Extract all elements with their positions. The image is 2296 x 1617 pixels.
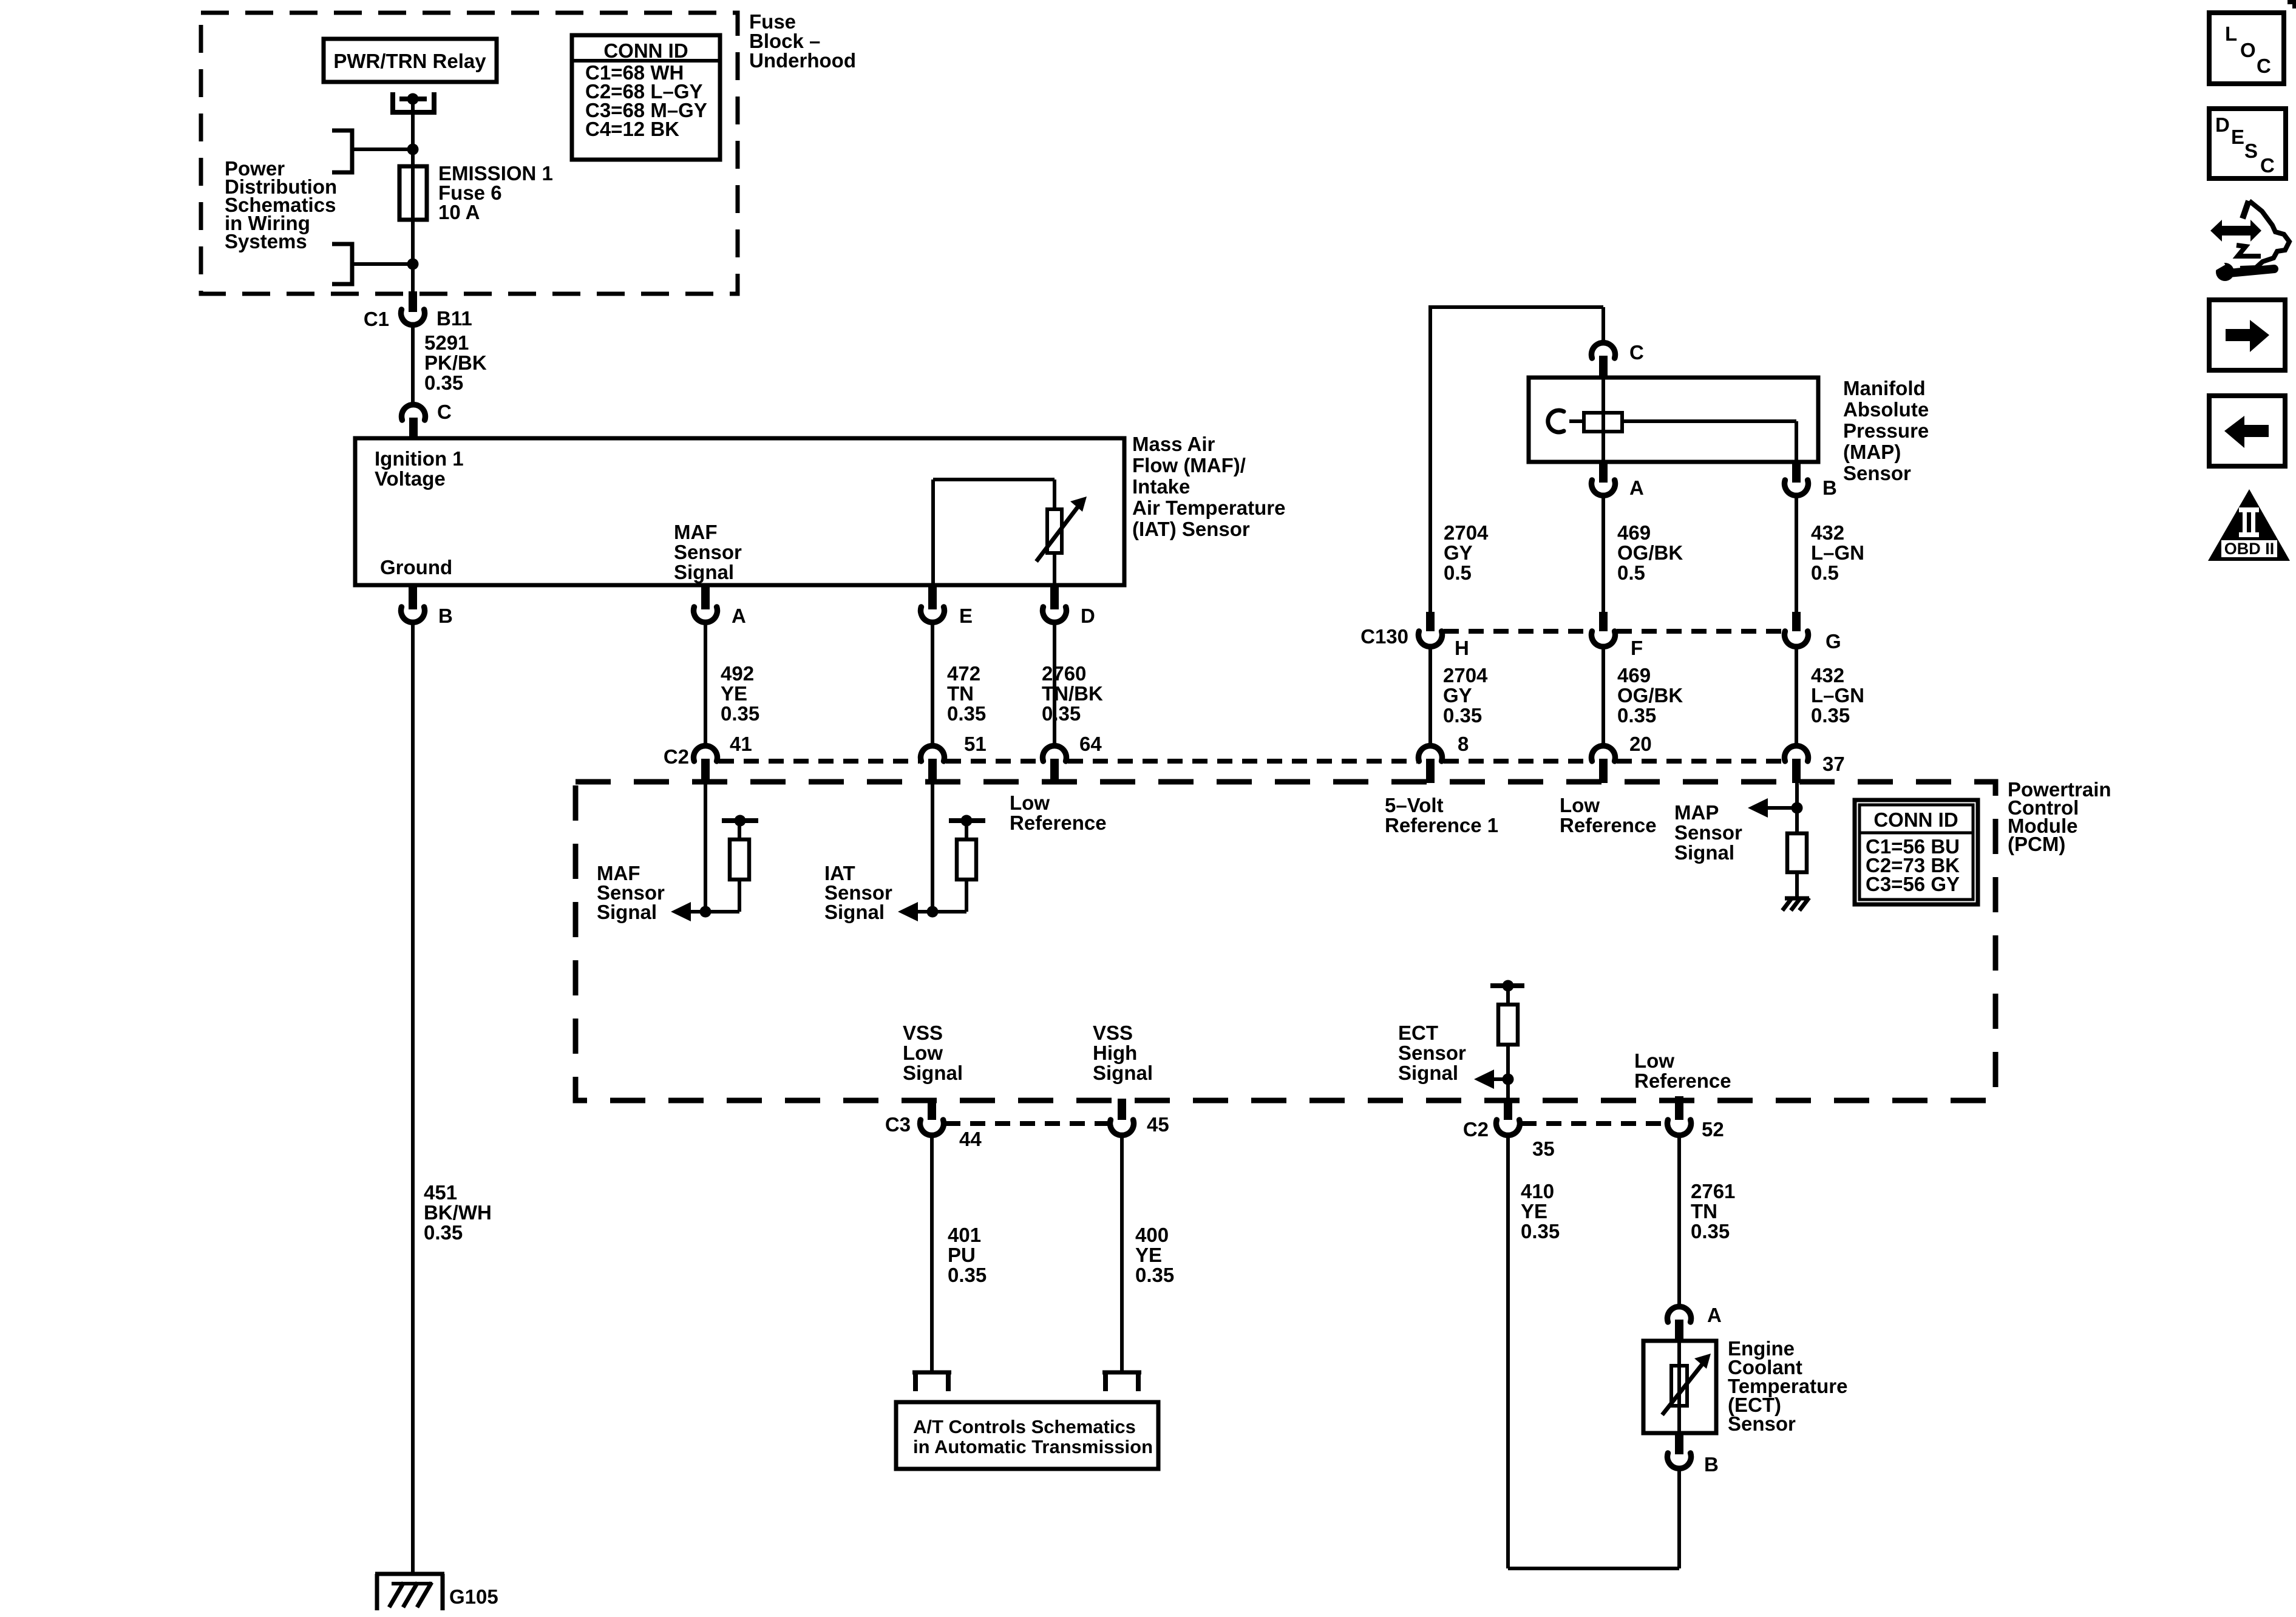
svg-text:TN: TN	[1691, 1200, 1717, 1222]
svg-text:Mass Air: Mass Air	[1132, 433, 1215, 455]
svg-text:C: C	[2260, 154, 2275, 177]
svg-text:20: 20	[1629, 733, 1652, 755]
svg-text:PK/BK: PK/BK	[424, 351, 487, 374]
wire 5291	[411, 324, 415, 405]
svg-text:A/T Controls Schematics: A/T Controls Schematics	[913, 1416, 1136, 1437]
label 432 L-GN 0.5	[1811, 521, 1864, 584]
svg-text:45: 45	[1147, 1113, 1169, 1136]
icon LOC box	[2209, 13, 2284, 84]
svg-text:D: D	[1081, 605, 1095, 627]
svg-text:492: 492	[721, 662, 754, 685]
PCM dashed box	[576, 782, 1995, 1100]
svg-text:C: C	[437, 401, 452, 423]
svg-text:Voltage: Voltage	[375, 467, 446, 490]
icon DESC box	[2209, 109, 2286, 178]
svg-text:(IAT) Sensor: (IAT) Sensor	[1132, 518, 1250, 540]
fuse F6 EMISSION 1 10A	[399, 166, 427, 220]
svg-text:Signal: Signal	[1398, 1062, 1458, 1084]
label 451 BK/WH 0.35	[424, 1181, 492, 1244]
wire 432 L-GN 0.35	[1795, 647, 1798, 746]
svg-text:Low: Low	[1560, 794, 1600, 816]
wire relay to fuse	[411, 99, 415, 293]
label Low Reference (pin 64)	[1010, 792, 1107, 834]
relay K (PWR/TRN Relay) box	[324, 39, 497, 82]
label Manifold Absolute Pressure (MAP) Sensor	[1843, 377, 1929, 484]
pin 64 (IAT low ref)	[1043, 733, 1102, 783]
svg-text:472: 472	[947, 662, 980, 685]
wire 2761 TN	[1677, 1136, 1681, 1306]
label 5-Volt Reference 1	[1385, 794, 1498, 836]
svg-text:2760: 2760	[1042, 662, 1086, 685]
svg-text:Manifold: Manifold	[1843, 377, 1926, 399]
svg-text:52: 52	[1702, 1118, 1724, 1141]
label 2704 GY 0.5	[1444, 521, 1489, 584]
svg-text:0.35: 0.35	[1443, 704, 1482, 727]
wire 432 L-GN 0.5	[1795, 495, 1798, 613]
svg-text:Intake: Intake	[1132, 475, 1190, 498]
svg-text:C130: C130	[1360, 625, 1408, 648]
svg-text:TN: TN	[947, 682, 974, 705]
svg-text:Low: Low	[1634, 1049, 1674, 1072]
svg-text:MAF: MAF	[674, 521, 717, 543]
svg-text:YE: YE	[721, 682, 747, 705]
resistor R (MAP load)	[1787, 833, 1807, 898]
terminal bracket (401)	[912, 1372, 951, 1391]
pin 37 (MAP signal)	[1785, 746, 1845, 783]
pin A (MAP 5V ref)	[1592, 462, 1644, 499]
svg-text:A: A	[732, 605, 746, 627]
svg-text:A: A	[1629, 476, 1644, 499]
MAF inner wire loop E-D	[933, 480, 1055, 583]
label 400 YE 0.35	[1135, 1224, 1174, 1286]
svg-text:0.5: 0.5	[1617, 561, 1645, 584]
svg-text:Low: Low	[903, 1042, 943, 1064]
wire MAP loop top	[1430, 305, 1603, 613]
svg-text:OG/BK: OG/BK	[1617, 541, 1683, 564]
label 5291 PK/BK 0.35	[424, 331, 487, 394]
fuse block - underhood dashed box	[201, 13, 738, 294]
svg-text:35: 35	[1532, 1137, 1555, 1160]
svg-text:Reference: Reference	[1634, 1070, 1731, 1092]
svg-text:C3: C3	[885, 1113, 911, 1136]
svg-text:Signal: Signal	[674, 561, 734, 583]
C130 dashed connector line	[1444, 629, 1783, 634]
svg-text:Systems: Systems	[225, 230, 307, 253]
CONN ID table (fuse block)	[572, 35, 720, 160]
C2 dashed connector line (bottom)	[1521, 1121, 1666, 1126]
svg-text:YE: YE	[1135, 1244, 1162, 1266]
pin B (MAP signal)	[1785, 462, 1837, 499]
connector C130 pin G	[1785, 612, 1841, 653]
svg-text:B11: B11	[436, 307, 472, 330]
svg-text:Ground: Ground	[380, 556, 452, 578]
svg-text:451: 451	[424, 1181, 457, 1204]
svg-text:Sensor: Sensor	[674, 541, 742, 563]
label Fuse Block - Underhood	[749, 10, 856, 72]
svg-text:0.35: 0.35	[424, 371, 463, 394]
svg-text:A: A	[1707, 1304, 1722, 1326]
ground G105	[375, 1574, 498, 1610]
label MAP Sensor Signal	[1674, 801, 1742, 864]
pin 52 (low ref)	[1668, 1096, 1724, 1141]
MAP inner vertical wire	[1601, 378, 1605, 462]
IAT thermistor RT1	[1036, 497, 1087, 561]
svg-text:VSS: VSS	[903, 1022, 943, 1044]
svg-text:(PCM): (PCM)	[2008, 833, 2065, 855]
wire tap2	[352, 262, 413, 266]
svg-text:0.35: 0.35	[947, 702, 986, 725]
ECT signal arrow	[1474, 1070, 1514, 1089]
wire 2760 TN/BK	[1053, 622, 1056, 746]
resistor R (MAF pullup)	[722, 815, 758, 912]
svg-text:C: C	[1629, 341, 1644, 364]
MAP inner diaphragm arc	[1548, 410, 1564, 432]
label 2704 GY 0.35	[1443, 664, 1488, 727]
label EMISSION 1 Fuse 6 10 A	[438, 162, 553, 223]
label Powertrain Control Module (PCM)	[2008, 778, 2111, 855]
MAF signal arrow	[671, 902, 739, 921]
svg-text:E: E	[2231, 126, 2244, 148]
svg-text:Sensor: Sensor	[1674, 821, 1742, 844]
MAP inner wire	[1569, 421, 1796, 462]
svg-text:PWR/TRN Relay: PWR/TRN Relay	[333, 50, 486, 72]
pin E (IAT signal)	[921, 585, 973, 627]
ground (PCM internal)	[1782, 898, 1809, 910]
wire 469 OG/BK 0.5	[1601, 495, 1605, 613]
svg-text:Absolute: Absolute	[1843, 398, 1929, 421]
svg-text:Sensor: Sensor	[1728, 1412, 1796, 1435]
wire 401 PU	[930, 1136, 934, 1372]
label 401 PU 0.35	[948, 1224, 987, 1286]
relay pin terminal symbol	[393, 92, 434, 112]
MAP inner element	[1584, 413, 1622, 432]
svg-text:GY: GY	[1443, 684, 1472, 707]
svg-text:8: 8	[1458, 733, 1469, 755]
svg-text:Reference: Reference	[1560, 814, 1657, 836]
label ECT Sensor Signal	[1398, 1022, 1466, 1084]
wire 400 YE	[1120, 1136, 1124, 1372]
wire pin51 internal	[931, 782, 934, 912]
ECT thermistor RT2	[1662, 1354, 1711, 1415]
svg-text:GY: GY	[1444, 541, 1473, 564]
pin D (IAT low ref)	[1043, 585, 1095, 627]
svg-text:41: 41	[730, 733, 752, 755]
label Low Reference (pin 20)	[1560, 794, 1657, 836]
label Engine Coolant Temperature (ECT) Sensor	[1728, 1337, 1847, 1435]
pin B (MAF ground)	[401, 585, 453, 627]
label Mass Air Flow (MAF)/IAT Sensor	[1132, 433, 1285, 540]
label 2761 TN 0.35	[1691, 1180, 1735, 1242]
label MAF Sensor Signal (inside box)	[674, 521, 742, 583]
MAP signal arrow	[1748, 798, 1803, 818]
svg-text:401: 401	[948, 1224, 981, 1246]
svg-text:Signal: Signal	[1093, 1062, 1153, 1084]
svg-text:2761: 2761	[1691, 1180, 1735, 1202]
power distribution tap bracket 2	[332, 244, 352, 284]
svg-text:C3=56 GY: C3=56 GY	[1866, 873, 1960, 895]
svg-text:0.5: 0.5	[1811, 561, 1839, 584]
svg-text:0.35: 0.35	[1521, 1220, 1560, 1242]
svg-text:OG/BK: OG/BK	[1617, 684, 1683, 707]
svg-text:B: B	[1704, 1453, 1719, 1476]
svg-text:O: O	[2240, 39, 2256, 61]
label 472 TN 0.35	[947, 662, 986, 725]
MAF/IAT sensor box	[355, 438, 1124, 585]
label C130	[1360, 625, 1408, 648]
wire 469 OG/BK 0.35	[1601, 647, 1605, 746]
svg-text:F: F	[1631, 637, 1643, 659]
svg-text:5291: 5291	[424, 331, 469, 354]
connector C (MAP pin C)	[1592, 341, 1644, 379]
C3 dashed connector line	[945, 1121, 1109, 1126]
svg-text:400: 400	[1135, 1224, 1169, 1246]
label 492 YE 0.35	[721, 662, 759, 725]
icon OBD II triangle	[2208, 489, 2290, 561]
pin 41 (MAF signal)	[694, 733, 752, 783]
wire 492 YE	[704, 622, 707, 746]
icon hand double-arrow	[2209, 201, 2289, 281]
svg-text:432: 432	[1811, 664, 1844, 686]
svg-text:469: 469	[1617, 664, 1651, 686]
svg-text:0.35: 0.35	[1811, 704, 1850, 727]
label Ignition 1 Voltage	[375, 447, 464, 490]
svg-text:37: 37	[1822, 753, 1845, 775]
label 469 OG/BK 0.35	[1617, 664, 1683, 727]
svg-text:C2: C2	[664, 745, 689, 768]
connector C (MAF pin C)	[402, 401, 452, 439]
svg-text:44: 44	[959, 1128, 982, 1150]
wire 451 BK/WH (ground)	[411, 622, 415, 1575]
svg-text:Reference: Reference	[1010, 812, 1107, 834]
pin 8 (5V ref)	[1419, 733, 1469, 783]
svg-text:Reference 1: Reference 1	[1385, 814, 1498, 836]
svg-text:in Automatic Transmission: in Automatic Transmission	[913, 1436, 1153, 1457]
svg-text:10 A: 10 A	[438, 201, 480, 223]
svg-text:Signal: Signal	[903, 1062, 963, 1084]
svg-text:Ignition 1: Ignition 1	[375, 447, 464, 470]
svg-text:Signal: Signal	[1674, 841, 1734, 864]
pin 20 (low ref)	[1592, 733, 1652, 783]
svg-text:0.5: 0.5	[1444, 561, 1472, 584]
svg-text:G105: G105	[449, 1585, 498, 1608]
pin 44 (VSS low)	[920, 1099, 982, 1150]
pin A (MAF sensor signal)	[694, 585, 746, 627]
ECT sensor box	[1643, 1341, 1716, 1433]
label IAT Sensor Signal (PCM)	[824, 862, 892, 923]
svg-text:G: G	[1826, 630, 1841, 653]
svg-text:Air Temperature: Air Temperature	[1132, 497, 1285, 519]
pin 45 (VSS high)	[1110, 1099, 1169, 1136]
svg-text:TN/BK: TN/BK	[1042, 682, 1103, 705]
svg-text:(MAP): (MAP)	[1843, 441, 1901, 463]
wire pin37 internal	[1795, 782, 1799, 833]
svg-text:0.35: 0.35	[721, 702, 759, 725]
svg-text:0.35: 0.35	[1691, 1220, 1730, 1242]
svg-text:Sensor: Sensor	[1398, 1042, 1466, 1064]
IAT signal arrow	[898, 902, 966, 921]
svg-text:L: L	[2225, 22, 2237, 45]
connector A (ECT)	[1668, 1304, 1722, 1342]
connector C1 pin B11	[364, 291, 472, 330]
wire 2704 GY 0.5	[0, 0, 1, 1]
label 432 L-GN 0.35	[1811, 664, 1864, 727]
svg-text:Underhood: Underhood	[749, 49, 856, 72]
svg-text:Flow (MAF)/: Flow (MAF)/	[1132, 454, 1246, 476]
svg-text:CONN ID: CONN ID	[1873, 808, 1958, 831]
svg-text:432: 432	[1811, 521, 1844, 544]
svg-text:High: High	[1093, 1042, 1137, 1064]
label Power Distribution Schematics	[225, 157, 337, 253]
MAP sensor box	[1529, 378, 1818, 462]
svg-text:5–Volt: 5–Volt	[1385, 794, 1444, 816]
ECT inner wire	[1677, 1341, 1681, 1433]
svg-text:B: B	[438, 605, 453, 627]
pin 35 (ECT signal)	[1496, 1099, 1555, 1160]
power distribution tap bracket 1	[332, 131, 352, 172]
label Ground	[380, 556, 452, 578]
node junction 2	[407, 259, 419, 270]
label C3	[885, 1113, 911, 1136]
svg-text:OBD II: OBD II	[2224, 540, 2275, 558]
svg-text:2704: 2704	[1443, 664, 1488, 686]
svg-text:ECT: ECT	[1398, 1022, 1438, 1044]
node junction 1	[407, 144, 419, 155]
icon prev arrow box	[2209, 396, 2285, 466]
connector C130 pin H	[1419, 612, 1469, 659]
connector C130 pin F	[1592, 612, 1643, 659]
page corner mark	[2288, 0, 2296, 8]
svg-text:Signal: Signal	[824, 901, 885, 923]
svg-text:C4=12 BK: C4=12 BK	[585, 118, 679, 140]
resistor R (IAT pullup)	[949, 815, 985, 912]
wire 410 YE	[1506, 1136, 1510, 1568]
svg-text:Low: Low	[1010, 792, 1050, 814]
svg-text:D: D	[2215, 114, 2230, 136]
svg-text:0.35: 0.35	[1042, 702, 1081, 725]
svg-text:51: 51	[964, 733, 987, 755]
resistor R (ECT pullup)	[1490, 980, 1524, 1100]
svg-text:H: H	[1455, 637, 1469, 659]
svg-text:C: C	[2257, 55, 2271, 77]
svg-text:0.35: 0.35	[1617, 704, 1656, 727]
svg-text:0.35: 0.35	[1135, 1264, 1174, 1286]
svg-text:64: 64	[1079, 733, 1102, 755]
svg-text:PU: PU	[948, 1244, 976, 1266]
wire tap1	[352, 147, 413, 151]
svg-text:B: B	[1822, 476, 1837, 499]
svg-text:C2: C2	[1463, 1118, 1489, 1141]
svg-text:Signal: Signal	[597, 901, 657, 923]
wire ECT B loop	[1508, 1468, 1679, 1568]
svg-text:CONN ID: CONN ID	[603, 39, 688, 62]
svg-text:Pressure: Pressure	[1843, 419, 1929, 442]
svg-text:0.35: 0.35	[948, 1264, 987, 1286]
svg-text:YE: YE	[1521, 1200, 1547, 1222]
terminal bracket (400)	[1102, 1372, 1141, 1391]
C2 dashed connector line (PCM top)	[719, 759, 1783, 764]
wire 2704 GY 0.35	[1428, 647, 1432, 746]
label VSS Low Signal	[903, 1022, 963, 1084]
label MAF Sensor Signal (PCM)	[597, 862, 665, 923]
svg-text:2704: 2704	[1444, 521, 1489, 544]
label 469 OG/BK 0.5	[1617, 521, 1683, 584]
svg-text:L–GN: L–GN	[1811, 541, 1864, 564]
wire 472 TN	[931, 622, 934, 746]
svg-text:MAP: MAP	[1674, 801, 1719, 824]
svg-text:L–GN: L–GN	[1811, 684, 1864, 707]
svg-text:0.35: 0.35	[424, 1221, 463, 1244]
svg-text:C1: C1	[364, 308, 389, 330]
pin 51 (IAT signal)	[921, 733, 987, 783]
icon next arrow box	[2209, 300, 2285, 370]
label C2 (left)	[664, 745, 689, 768]
A/T Controls box	[896, 1402, 1158, 1469]
svg-text:E: E	[959, 605, 973, 627]
label Low Reference (pin 52)	[1634, 1049, 1731, 1092]
svg-text:BK/WH: BK/WH	[424, 1201, 492, 1224]
connector B (ECT)	[1668, 1433, 1719, 1476]
label C2 (bottom)	[1463, 1118, 1489, 1141]
wire pin41 internal	[704, 782, 707, 912]
svg-text:410: 410	[1521, 1180, 1554, 1202]
CONN ID table (PCM)	[1855, 800, 1978, 904]
svg-text:VSS: VSS	[1093, 1022, 1133, 1044]
label 2760 TN/BK 0.35	[1042, 662, 1103, 725]
svg-text:Sensor: Sensor	[1843, 462, 1911, 484]
svg-text:469: 469	[1617, 521, 1651, 544]
label VSS High Signal	[1093, 1022, 1153, 1084]
svg-text:S: S	[2244, 140, 2258, 162]
label 410 YE 0.35	[1521, 1180, 1560, 1242]
